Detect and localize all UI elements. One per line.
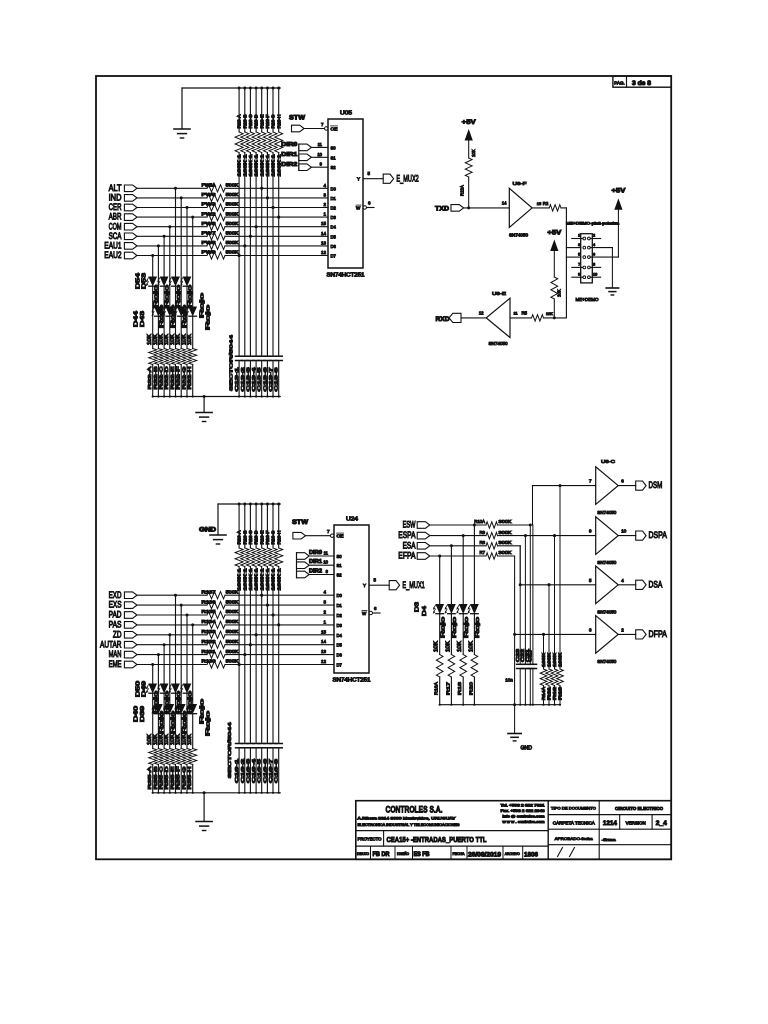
resistor R26-G with capacitor C16-7 column [268, 503, 277, 794]
svg-text:w w w . controles.com: w w w . controles.com [503, 820, 545, 824]
wire DIR0 to S0 [309, 551, 334, 557]
svg-text:D43: D43 [140, 311, 146, 327]
svg-text:PAD: PAD [109, 610, 122, 620]
svg-text:PW9: PW9 [202, 250, 217, 255]
svg-text:R9: R9 [480, 530, 486, 535]
svg-text:100K: 100K [541, 653, 546, 667]
header ME+DEMO 2x5 [566, 220, 620, 301]
svg-text:100K 1: 100K 1 [248, 153, 253, 176]
title block [356, 801, 671, 860]
svg-text:CEA15+ -ENTRADAS_PUERTO TTL: CEA15+ -ENTRADAS_PUERTO TTL [387, 835, 487, 844]
svg-text:R17: R17 [445, 681, 450, 695]
LED column: LED + resistor R35-H 10K [189, 625, 197, 794]
resistor R26-D with capacitor C16-4 column [251, 503, 260, 794]
svg-text:R32-G: R32-G [181, 366, 187, 389]
resistor R135 500K (series) [202, 609, 239, 618]
LED D (column 4) red [163, 307, 173, 390]
svg-text:SN74050: SN74050 [597, 609, 617, 614]
svg-text:C13-3: C13-3 [245, 366, 250, 391]
svg-text:DIR2: DIR2 [281, 162, 297, 168]
resistor R134 500K (series) [202, 619, 239, 628]
svg-text:10: 10 [593, 272, 597, 276]
LED column: LED + resistor R32-F 10K [177, 198, 185, 398]
svg-text:R23-G: R23-G [271, 115, 276, 129]
svg-text:R22A: R22A [459, 185, 464, 196]
svg-text:EXS: EXS [109, 600, 122, 610]
svg-text:D7: D7 [337, 663, 343, 668]
wire buffer to DSPA [618, 535, 636, 537]
svg-text:100K 1: 100K 1 [271, 567, 276, 590]
pin number 1 [323, 212, 326, 217]
svg-text:500K: 500K [226, 202, 239, 207]
wire TXD to buffer U6-F [464, 201, 510, 210]
resistor R8 300K (series) [430, 540, 512, 549]
svg-text:10K: 10K [556, 289, 561, 297]
svg-text:Rojo: Rojo [452, 617, 458, 638]
resistor R26-F with capacitor C16-6 column [262, 503, 271, 794]
svg-text:R26-D: R26-D [254, 531, 259, 545]
svg-text:PAG.: PAG. [614, 80, 625, 85]
svg-text:R32-E: R32-E [170, 367, 176, 390]
svg-text:S2: S2 [337, 573, 343, 578]
output connector E_MUX1 [389, 580, 425, 590]
labels LED designators [133, 273, 147, 327]
LED column: LED + resistor R32-A 10K [149, 256, 157, 398]
svg-text:R32-C: R32-C [159, 366, 165, 390]
svg-text:13: 13 [321, 240, 327, 245]
wire row IND [137, 196, 328, 199]
svg-text:R20: R20 [468, 681, 473, 695]
input connector AUTAR [100, 639, 137, 649]
svg-text:OE: OE [337, 534, 344, 539]
page box PAG. 3 de 8 [613, 76, 671, 87]
svg-text:300K: 300K [499, 519, 512, 524]
wire buffer to DSM [618, 485, 636, 487]
LED D5 red [457, 605, 470, 696]
svg-text:500K: 500K [226, 659, 239, 664]
wire Y output to E_MUX1 [369, 578, 389, 586]
svg-text:300K: 300K [499, 530, 512, 535]
LED column 2: LED + resistor R17 10K [448, 544, 455, 706]
resistor R132 500K (series) [202, 639, 239, 648]
svg-text:D6: D6 [337, 653, 343, 658]
label U6-C [601, 459, 616, 465]
svg-text:ESA: ESA [403, 540, 416, 550]
svg-text:Rojo: Rojo [153, 285, 159, 308]
resistor R11 100K [546, 583, 553, 706]
LED column: LED + resistor R35-A 10K [149, 665, 157, 794]
resistor R23-C with capacitor C13-3 column [245, 87, 254, 398]
input connector ESW [403, 520, 430, 530]
svg-text:U24: U24 [346, 517, 358, 523]
svg-text:STW: STW [292, 519, 309, 526]
svg-text:E_MUX1: E_MUX1 [402, 580, 424, 590]
svg-text:R35-C: R35-C [159, 766, 165, 790]
input connector ABR [109, 212, 137, 222]
svg-text:500K: 500K [226, 609, 239, 614]
svg-text:EME: EME [109, 659, 122, 669]
svg-text:9: 9 [578, 272, 580, 276]
svg-text:info @ controles.com: info @ controles.com [503, 814, 545, 818]
input connector PAD [109, 610, 137, 620]
svg-text:PW5A: PW5A [202, 183, 216, 188]
pin number 15 [321, 221, 327, 226]
svg-text:SN74HCT251: SN74HCT251 [327, 273, 365, 279]
svg-text:1: 1 [578, 234, 580, 238]
pin number 15 [321, 629, 327, 634]
svg-text:R26-A: R26-A [237, 530, 242, 544]
svg-text:300K: 300K [499, 550, 512, 555]
resistor PW8 500K (series) [202, 240, 239, 249]
wire row PAD [137, 614, 334, 617]
svg-text:U05: U05 [340, 111, 352, 117]
LED D6 red [468, 605, 481, 696]
svg-text:PW3: PW3 [202, 202, 217, 207]
svg-text:12: 12 [321, 250, 327, 255]
svg-text:R23-A: R23-A [237, 114, 242, 128]
svg-text:5: 5 [578, 252, 580, 256]
wire row CER [137, 206, 328, 209]
svg-text:Fax. +598 2 622 2048: Fax. +598 2 622 2048 [501, 809, 545, 813]
svg-text:C16-4: C16-4 [251, 758, 256, 783]
svg-text:D0: D0 [337, 593, 343, 598]
resistor R131 500K (series) [202, 649, 239, 658]
wire DIR2 to S2 [311, 162, 328, 168]
svg-text:100K: 100K [558, 653, 563, 667]
svg-text:500K: 500K [226, 629, 239, 634]
LED column: LED + resistor R35-D 10K [166, 635, 174, 794]
input connector DIR0 [297, 550, 323, 560]
svg-text:10K: 10K [187, 733, 193, 745]
ground (header) [606, 288, 618, 295]
LED D (column 3) red [158, 277, 168, 390]
capacitor C22 [520, 536, 529, 706]
svg-text:11: 11 [324, 551, 329, 556]
svg-text:STW: STW [289, 115, 306, 122]
svg-text:14: 14 [321, 639, 327, 644]
input connector ESA [403, 540, 430, 550]
wire row EXD [137, 594, 334, 597]
svg-text:D44: D44 [133, 311, 139, 327]
svg-text:100K 1: 100K 1 [254, 153, 259, 176]
svg-text:ESW: ESW [403, 520, 416, 530]
svg-text:AUTAR: AUTAR [100, 639, 122, 649]
svg-text:11: 11 [318, 142, 323, 147]
pin number 14 [321, 639, 327, 644]
buffer U6 DSM SN74050 [589, 467, 624, 515]
LED D4 red [445, 605, 458, 696]
resistor R9 300K (series) [430, 530, 512, 539]
input connector EME [109, 659, 137, 669]
buffer U6-F SN74050 [509, 181, 532, 238]
svg-text:R131: R131 [202, 649, 217, 654]
svg-text:SECTOR/5044: SECTOR/5044 [229, 334, 235, 391]
svg-text:500K: 500K [226, 240, 239, 245]
svg-text:R35-G: R35-G [181, 766, 187, 789]
svg-text:500K: 500K [226, 649, 239, 654]
svg-text:C16-7: C16-7 [268, 758, 273, 783]
capacitor C21 [525, 525, 534, 706]
svg-text:FB DR: FB DR [373, 852, 391, 858]
wire: GND rail [218, 504, 280, 535]
buffer U6 DFPA SN74050 [589, 616, 624, 664]
svg-text:SN74050: SN74050 [597, 510, 617, 515]
input connector EAU1 [104, 241, 137, 251]
LED column: LED + resistor R32-D 10K [166, 227, 174, 398]
svg-text:R32-H: R32-H [187, 366, 193, 390]
svg-text:R133: R133 [202, 629, 217, 634]
LED column: LED + resistor R32-B 10K [154, 246, 162, 398]
svg-text:R35-H: R35-H [187, 766, 193, 790]
svg-text:ALT: ALT [109, 183, 122, 193]
LED column: LED + resistor R35-C 10K [160, 645, 168, 794]
svg-text:500K: 500K [226, 619, 239, 624]
wire DIR2 to S2 [309, 569, 334, 575]
svg-text:Rojo: Rojo [206, 711, 212, 736]
svg-text:MAN: MAN [109, 649, 122, 659]
svg-text:C13-4: C13-4 [251, 366, 256, 391]
svg-text:OE: OE [331, 127, 338, 132]
labels D3 D4 [415, 602, 429, 616]
svg-text:Rojo: Rojo [170, 305, 176, 328]
svg-text:500K: 500K [226, 250, 239, 255]
svg-text:R35-E: R35-E [170, 767, 176, 790]
svg-text:500K: 500K [226, 221, 239, 226]
svg-text:100K 1: 100K 1 [259, 153, 264, 176]
input connector TXD [435, 205, 464, 213]
svg-text:D1: D1 [331, 196, 337, 201]
LED D (column 5) red [169, 277, 179, 390]
input connector ALT [109, 183, 137, 193]
output connector DSPA [636, 530, 667, 540]
pin number 2 [323, 202, 326, 207]
svg-text:R26-E: R26-E [259, 530, 264, 544]
svg-text:10: 10 [621, 529, 627, 534]
wire: pull-down rail to ground [182, 88, 280, 129]
document type cells [551, 806, 668, 857]
LED column 1: LED + resistor R16A 10K [436, 555, 443, 706]
LED D (column 7) red [181, 277, 191, 390]
svg-text:U6-E: U6-E [492, 291, 506, 297]
svg-text:PROYECTO: PROYECTO [358, 837, 383, 842]
pin number 4 [323, 590, 326, 595]
svg-text:EAU2: EAU2 [104, 250, 121, 260]
wire buffer to DFPA [618, 633, 636, 635]
buffer U6 DSA SN74050 [589, 566, 624, 614]
svg-text:Tel. +598 2 622 7621: Tel. +598 2 622 7621 [501, 803, 545, 807]
wire: DIR connector bracket [296, 553, 298, 578]
output connector RXD [436, 313, 462, 323]
svg-text:500K: 500K [226, 211, 239, 216]
svg-text:10: 10 [317, 152, 322, 157]
power +5V (TXD pull-up) [462, 119, 477, 140]
input connector EXS [109, 600, 137, 610]
svg-text:D2: D2 [331, 206, 337, 211]
svg-text:ES FB: ES FB [414, 852, 431, 858]
svg-text:500K: 500K [226, 599, 239, 604]
svg-text:D49: D49 [141, 681, 147, 697]
svg-text:R10A: R10A [474, 519, 485, 524]
svg-text:1214: 1214 [603, 821, 618, 827]
wire row ZD [137, 633, 334, 636]
svg-text:C16-3: C16-3 [245, 758, 250, 783]
LED D (column 5) red [169, 684, 179, 790]
svg-text:100K 1: 100K 1 [237, 567, 242, 590]
wire row AUTAR [137, 643, 334, 646]
input connector STW [292, 519, 309, 539]
resistor R26-A with capacitor C16-1 column [234, 503, 243, 794]
svg-text:100K 1: 100K 1 [265, 567, 270, 590]
input connector DIR2 [297, 568, 323, 578]
svg-text:R32-D: R32-D [164, 366, 170, 390]
svg-text:R35-B: R35-B [153, 767, 159, 790]
svg-text:100K 1: 100K 1 [259, 567, 264, 590]
LED D (column 8) red [186, 705, 196, 790]
LED column: LED + resistor R35-B 10K [154, 655, 162, 794]
svg-text:S0: S0 [337, 554, 343, 559]
svg-text:D5: D5 [337, 643, 343, 648]
svg-text:R16A: R16A [434, 681, 439, 695]
svg-text:R23-B: R23-B [242, 114, 247, 128]
wire buffer U6-E to RXD [461, 311, 486, 318]
svg-text:500K: 500K [226, 231, 239, 236]
svg-text:C16-6: C16-6 [262, 758, 267, 783]
svg-text:3: 3 [578, 243, 580, 247]
svg-text:ME+DEMO-pin2-polariza: ME+DEMO-pin2-polariza [566, 220, 620, 225]
resistor R22A 10K (TXD pull-up) [459, 140, 476, 208]
svg-text:R32-A: R32-A [147, 365, 153, 389]
pin number 3 [323, 600, 326, 605]
svg-text:100K 1: 100K 1 [242, 153, 247, 176]
svg-text:10K: 10K [457, 640, 463, 652]
resistor R133 500K (series) [202, 629, 239, 638]
resistor R23-F with capacitor C13-6 column [262, 87, 271, 398]
svg-text:R23-F: R23-F [265, 114, 270, 129]
svg-text:SN74050: SN74050 [489, 341, 509, 346]
svg-text:R26-H: R26-H [276, 531, 281, 545]
pin W (unused, inverted output) [369, 606, 380, 615]
wire header pin 4 to ground [590, 248, 612, 288]
svg-text:TIPO DE DOCUMENTO: TIPO DE DOCUMENTO [551, 806, 596, 811]
resistor R13 100K [557, 484, 564, 706]
LED D (column 3) red [158, 684, 168, 790]
resistor PW2 500K (series) [202, 211, 239, 220]
wire: DIR connector bracket [298, 144, 300, 170]
svg-text:D7: D7 [331, 254, 337, 259]
svg-text:VERSION: VERSION [626, 820, 646, 825]
labels Rojo (LED colors) [153, 285, 211, 330]
LED D (column 6) red [175, 705, 185, 790]
resistor PW6 500K (series) [202, 192, 239, 201]
svg-text:100K 1: 100K 1 [271, 153, 276, 176]
LED D (column 1) red [146, 277, 156, 390]
svg-text:C13-2: C13-2 [240, 366, 245, 391]
mux U05 SN74HCT251 [327, 111, 365, 279]
svg-text:500K: 500K [226, 192, 239, 197]
wire STW to OE (active low) [304, 122, 328, 130]
resistor R23-G with capacitor C13-7 column [268, 87, 277, 398]
svg-text:3 de 8: 3 de 8 [632, 81, 652, 87]
wire ESPA to DSPA buffer [498, 534, 596, 537]
svg-text:R12: R12 [552, 686, 557, 700]
labels Rojo (LED colors) [153, 691, 211, 736]
svg-text:SN74050: SN74050 [597, 560, 617, 565]
wire row ALT [137, 187, 328, 190]
svg-text:R23-C: R23-C [248, 115, 253, 129]
svg-text:R26-B: R26-B [242, 530, 247, 544]
wire STW to OE (active low) [306, 529, 334, 537]
svg-text:S2: S2 [331, 165, 337, 170]
resistor R26-C with capacitor C16-3 column [245, 503, 254, 794]
svg-text:15: 15 [537, 201, 542, 206]
svg-text:EXD: EXD [109, 590, 122, 600]
svg-text:R130: R130 [202, 659, 217, 664]
svg-text:SN74050: SN74050 [597, 659, 617, 664]
resistor R26-B with capacitor C16-2 column [240, 503, 249, 794]
wire row MAN [137, 653, 334, 656]
svg-text:U6-C: U6-C [601, 459, 616, 465]
resistor R10A 300K (series) [430, 519, 512, 528]
svg-text:IND: IND [109, 193, 122, 203]
svg-text:DSM: DSM [649, 480, 663, 490]
svg-text:R35-A: R35-A [147, 765, 153, 789]
svg-text:Rojo: Rojo [153, 691, 159, 714]
svg-text:RXD: RXD [436, 316, 450, 323]
svg-text:12: 12 [321, 659, 327, 664]
LED column 3: LED + resistor R18 10K [460, 534, 467, 706]
svg-text:Rojo: Rojo [176, 691, 182, 714]
input connector EAU2 [104, 250, 137, 260]
drawing info row [357, 851, 538, 859]
svg-text:SCA: SCA [109, 231, 122, 241]
buffer U6 DSPA SN74050 [589, 517, 627, 565]
pin number 4 [323, 183, 326, 188]
svg-text:500K: 500K [226, 183, 239, 188]
resistor R5 (series on RXD) [510, 311, 566, 322]
svg-text:TXD: TXD [435, 206, 449, 213]
power +5V (RXD pull-up) [547, 230, 562, 251]
company contact lines [501, 803, 545, 824]
svg-text:D4: D4 [337, 633, 343, 638]
project row [358, 835, 487, 844]
svg-text:DIBUJO: DIBUJO [357, 852, 369, 856]
svg-text:100K 1: 100K 1 [265, 153, 270, 176]
LED column: LED + resistor R32-C 10K [160, 236, 168, 397]
svg-text:Rojo: Rojo [188, 691, 194, 714]
svg-text:R7: R7 [480, 550, 486, 555]
svg-text:DIR0: DIR0 [309, 550, 322, 556]
ground (bottom rail) [196, 413, 212, 422]
svg-text:CER: CER [109, 202, 122, 212]
resistor R23-B with capacitor C13-2 column [240, 87, 249, 398]
svg-text:GND: GND [521, 746, 533, 752]
svg-text:S1: S1 [331, 155, 337, 160]
resistor PW9 500K (series) [202, 250, 239, 259]
svg-text:12: 12 [479, 311, 484, 316]
svg-text:D0: D0 [331, 186, 337, 191]
svg-text:Rojo: Rojo [475, 617, 481, 638]
wire row EAU2 [137, 254, 328, 257]
svg-text:C13-8: C13-8 [274, 366, 279, 391]
LED D (column 4) red [163, 705, 173, 790]
svg-text:D40: D40 [133, 706, 139, 722]
input connector MAN [109, 649, 137, 659]
svg-text:R26-F: R26-F [265, 530, 270, 545]
svg-text:8: 8 [593, 263, 595, 267]
svg-text:R2: R2 [543, 201, 549, 206]
svg-text:D3: D3 [331, 215, 337, 220]
svg-text:ABR: ABR [109, 212, 122, 222]
